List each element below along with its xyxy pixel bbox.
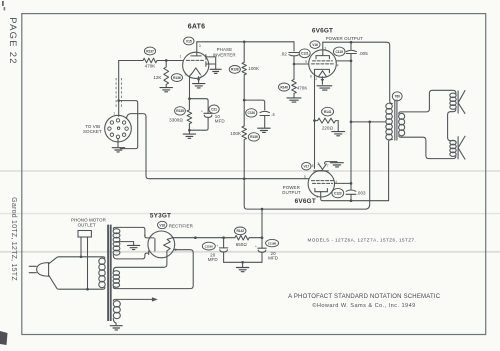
node junction V15 cathode / R135 C21 [188,97,191,100]
resistor R139 zigzag [242,100,247,139]
pin 3 of V16 [324,46,326,50]
value 470K of R140 [297,85,308,90]
value 20 MFD of C119A [208,253,219,262]
wire V16 screen to bus [336,60,351,62]
ground for V15 diodes [210,69,221,73]
svg-text:+: + [217,244,219,248]
C119B lower lead [261,252,263,262]
power transformer heater winding [113,301,120,319]
value .02 of C121 [280,51,287,56]
label POWER OUTPUT upper [326,36,364,41]
resistor R142 zigzag [235,235,249,240]
svg-text:2: 2 [315,77,317,81]
resistor R135 ref oval [175,107,186,115]
value 12K [153,75,161,80]
resistor 12K zigzag [164,61,169,88]
pin 2 of V15 [185,73,187,77]
tube V18 ref oval [158,221,167,228]
capacitor C115 and C123 bus vertical [350,42,352,201]
resistor R138 zigzag [242,42,246,100]
capacitor C121 top lead [293,42,295,51]
svg-text:7: 7 [200,75,202,79]
wire AC bottom [49,275,105,289]
value 100K of R138 [248,66,259,71]
svg-text:.4: .4 [271,112,275,117]
ground below V15 [193,84,205,88]
resistor R136 ref oval [171,74,182,82]
label 5Y3GT [150,212,171,219]
C120 lower lead [264,116,266,128]
label POWER OUTPUT lower [282,185,301,195]
svg-text:470K: 470K [145,64,156,69]
node junction grid line / R139 [243,177,246,180]
wire filament winding top to V18 [113,257,167,271]
value 220 ohm of R141 [322,125,334,130]
tube label 6V6GT upper [312,27,333,34]
shield dashes [116,78,121,108]
pin 7 of V17 [327,164,329,168]
wire V16 V17 cathode line [314,69,316,168]
filter bus ground stem [242,262,244,267]
node junction C121/R140/grid [293,63,296,66]
power transformer primary coil [99,258,105,288]
ground below 12K [160,88,172,92]
svg-text:Garod 10TZ, 12TZ, 15TZ: Garod 10TZ, 12TZ, 15TZ [10,197,17,281]
resistor R141 ref oval [322,107,334,116]
tube V17 envelope [308,171,334,197]
wire socket to V17 grid [127,114,310,179]
svg-text:5: 5 [305,60,307,64]
svg-text:R135: R135 [176,109,184,113]
resistor R141 zigzag [315,118,339,131]
tube V18 envelope [148,231,175,258]
V16 screen grid dashes [313,60,333,62]
svg-text:C21: C21 [211,108,217,112]
node junction screen bus upper [350,60,353,63]
resistor R138 ref oval [229,66,240,74]
svg-text:.003: .003 [357,191,366,196]
pin 8 of V16 [310,74,312,78]
svg-text:RECTIFIER: RECTIFIER [169,224,194,229]
V16 heater stem and arrowhead [321,77,325,85]
ground below R141 [332,132,345,136]
label PHONO MOTOR OUTLET [71,218,107,228]
capacitor C120 ref oval [246,109,257,117]
svg-text:220Ω: 220Ω [322,125,334,130]
capacitor C119A ref oval [202,242,215,250]
value .005 of C115 [359,51,368,56]
label PHASE INVERTER [213,47,237,57]
node shield tap [117,99,120,102]
svg-text:R137: R137 [146,49,154,53]
pin 2 of V16 [315,77,317,81]
V17 plate bar [315,189,328,192]
svg-text:R136: R136 [173,76,181,80]
heater winding bottom lead [113,318,116,325]
capacitor C123 ref oval [332,188,344,197]
resistor R135 zigzag [187,99,192,131]
V15 grid dashes [187,59,204,61]
wire V15 grid line [119,60,183,62]
scan streak 2 [0,213,500,215]
pin 2 of V18 [175,248,177,252]
node junction bus / CT line [350,121,353,124]
capacitor C123 plates [346,190,356,194]
svg-text:C123: C123 [334,191,342,195]
pin 5 of V17 [304,175,306,179]
V17 control grid dashes [312,180,334,182]
value 10 MFD of C21 [215,114,226,123]
ground below socket [112,148,124,152]
capacitor C21 branch wire [190,99,209,113]
svg-text:C115: C115 [336,50,344,54]
plus sign C119B [255,244,257,248]
svg-text:R142: R142 [236,229,244,233]
V16 plate lead [322,42,324,55]
node junction C119B top [261,236,264,239]
speaker 2 magnet symbol [458,136,465,160]
V18 filament zigzag [164,238,173,257]
node junction R138/R139/C120 [243,99,246,102]
svg-text:3: 3 [199,44,201,48]
power transformer HV winding [113,229,120,256]
capacitor C115 plates [346,50,356,53]
svg-text:V17: V17 [304,165,310,169]
wire filter ground bus [224,261,262,263]
resistor R139 ref oval [248,133,259,141]
label TO VIB SOCKET [83,124,102,134]
V18 plate bar [154,239,156,251]
capacitor C119A lead [223,238,225,248]
svg-text:V18: V18 [159,223,165,227]
ground below R135 [183,134,195,138]
svg-text:.02: .02 [280,51,287,56]
pin 3 of V15 [199,44,201,48]
wire V16 plate to output transformer [323,42,393,103]
label RECTIFIER [169,224,194,229]
wire AC top [49,257,105,264]
plug prongs [29,266,36,272]
svg-text:MODELS - 12TZ6A, 12TZ7A, 15TZ6: MODELS - 12TZ6A, 12TZ7A, 15TZ6, 15TZ7. [308,237,417,242]
V16 plate bar [316,56,329,59]
ground below power transformer [110,326,122,330]
V15 cathode arrow [190,68,201,99]
svg-text:C119A: C119A [205,244,214,248]
svg-text:100K: 100K [248,66,259,71]
pin 3 of V17 [316,195,318,199]
pin 4 of V17 [335,180,337,184]
scan streak 1 [0,170,500,172]
pin 1 of V15 [180,54,182,58]
V16 cathode bar [315,69,330,72]
wire secondary top to speaker 1 [399,90,456,113]
resistor R137 ref oval [144,47,155,55]
pin 1 of socket [113,112,115,116]
V16 control grid dashes [312,63,334,65]
tube label 6V6GT lower [295,198,316,205]
svg-text:8: 8 [310,74,312,78]
svg-text:R140: R140 [280,85,288,89]
svg-text:6AT6: 6AT6 [188,24,205,31]
svg-text:7: 7 [327,164,329,168]
svg-text:4: 4 [337,64,339,68]
node junction outlet top [80,255,83,258]
svg-text:12K: 12K [153,75,161,80]
page edge mark bottom-left [0,331,8,345]
V17 screen grid dashes [313,182,333,184]
wire heater winding to heaters arrow [113,297,158,301]
svg-text:3300Ω: 3300Ω [169,118,183,123]
svg-text:V15: V15 [186,39,192,43]
plus sign C119A [217,244,219,248]
tube label 6AT6 [188,24,205,31]
svg-text:R139: R139 [250,135,258,139]
wire secondary bottom to speaker 2 [399,136,456,159]
svg-text:6V6GT: 6V6GT [312,27,333,34]
svg-text:©Howard W. Sams & Co., Inc. 19: ©Howard W. Sams & Co., Inc. 1949 [312,302,415,309]
wire V15 plate to C121 [197,41,294,43]
svg-text:1: 1 [113,112,115,116]
wire shield to ground [119,101,138,149]
page number label PAGE 22 [8,17,19,65]
capacitor C119B lead from B plus [261,209,263,248]
svg-text:650Ω: 650Ω [236,242,248,247]
svg-text:PAGE 22: PAGE 22 [8,17,19,65]
wire R139 bottom to B plus line [244,122,370,209]
wire V17 heater to ground [325,162,337,164]
svg-text:MFD: MFD [208,257,219,262]
svg-text:POWER OUTPUT: POWER OUTPUT [326,36,364,41]
svg-text:+: + [255,244,257,248]
tube V17 ref oval [302,162,311,170]
svg-text:3: 3 [324,46,326,50]
power transformer core [108,225,111,321]
svg-text:6V6GT: 6V6GT [295,198,316,205]
V17 heater chevron [319,164,327,170]
pin 4 of V16 [337,64,339,68]
svg-text:C119B: C119B [268,241,276,245]
value 470K of R137 [145,64,156,69]
node junction B plus / C119B [261,208,264,211]
label copyright Howard W. Sams [312,302,415,309]
ground below R140 [287,98,301,102]
pin 5 of V16 [305,60,307,64]
node junction R135 / C21 / ground [188,129,191,132]
output transformer T60 ref oval [392,92,402,101]
node junction C119A top [222,236,225,239]
svg-text:470K: 470K [297,85,308,90]
node junction C123 / plate line [350,199,353,202]
node junction outlet bottom [86,288,89,291]
node junction at 195 [194,236,197,239]
svg-text:SOCKET: SOCKET [83,129,102,134]
capacitor C21 plates [204,113,212,117]
tube V15 ref oval [184,37,194,45]
wire HV winding top to plate pin 4 [113,227,154,238]
svg-text:T60: T60 [395,95,401,99]
capacitor C120 branch wire [244,100,265,110]
wire V17 screen to bus [334,182,351,184]
svg-text:+: + [201,110,203,114]
pin 8 of V17 [312,164,314,168]
svg-text:5Y3GT: 5Y3GT [150,212,171,219]
output transformer primary coil [386,103,393,140]
outlet prong leads [81,237,88,289]
C119A lower lead [223,252,225,262]
wire speaker 1 to speaker 2 [448,109,456,142]
diode plate leads and tie [206,57,216,69]
vibrator socket [105,115,132,142]
plus sign C21 [201,110,203,114]
C21 lower lead [189,117,208,130]
wire HV bottom to plate pin 6 [113,253,148,259]
pin 7 of V15 [200,75,202,79]
HV center tap lead [116,242,133,245]
svg-text:PHASE: PHASE [217,47,233,52]
svg-text:.005: .005 [359,51,368,56]
wire CT line to primary [351,121,386,123]
V17 cathode bar [314,170,329,172]
ground at HV center tap [128,245,140,249]
V15 plate bar [191,55,201,57]
node junction CT / B plus vertical [368,121,371,124]
capacitor C119A plates [219,248,227,252]
node junction grid/12K [165,59,168,62]
node junction ground bus [241,261,244,264]
page edge mark top-left [2,1,5,10]
V15 heater stem and arrowhead [197,77,201,83]
label MODELS list [308,237,417,242]
svg-text:2: 2 [317,162,319,166]
model label Garod 10TZ, 12TZ, 15TZ [10,197,17,281]
value 3300 ohm of R135 [169,118,183,123]
resistor R137 zigzag [143,58,157,63]
node junction plate wire / C115 [350,41,353,44]
svg-text:INVERTER: INVERTER [213,52,237,57]
svg-text:OUTLET: OUTLET [78,222,96,227]
speaker 2 voice coil [450,140,456,156]
V15 plate lead [196,42,198,56]
svg-text:R141: R141 [324,110,332,114]
wire V18 output to filter [172,237,262,239]
svg-text:C121: C121 [301,52,309,56]
resistor R140 ref oval [279,83,290,91]
pin 4 of V18 [144,234,146,238]
node junction cathode / R141 [313,119,316,122]
speaker 1 voice coil [450,93,456,109]
output transformer core [395,100,397,141]
tube V15 envelope [183,52,209,78]
wire to V16 grid [294,63,309,65]
svg-text:100K: 100K [230,131,241,136]
AC line plug [37,263,49,277]
speaker 1 magnet symbol [458,90,465,114]
svg-text:A PHOTOFACT STANDARD NOTATI: A PHOTOFACT STANDARD NOTATION SCHEMATIC [288,294,441,300]
wire V17 plate to output transformer [321,140,393,201]
svg-text:3: 3 [316,195,318,199]
power transformer filament winding [113,271,120,288]
svg-text:1: 1 [180,54,182,58]
C121 lower lead [293,57,295,64]
label A PHOTOFACT STANDARD NOTATION SCHEMATIC [288,294,441,300]
svg-text:V16: V16 [312,43,318,47]
ground below C120 [258,128,270,132]
value 20 MFD of C119B [268,251,279,260]
svg-text:C120: C120 [248,111,256,115]
wire filament winding bottom to V18 pin 2 [113,250,193,289]
value 650 ohm of R142 [236,242,248,247]
node junction bus / V17 screen [350,182,353,185]
tube V16 envelope [309,50,337,78]
svg-text:OUTPUT: OUTPUT [282,190,301,195]
value .4 of C120 [271,112,275,117]
svg-text:8: 8 [312,164,314,168]
resistor R142 ref oval [234,227,246,235]
ground below filter bus [236,268,248,272]
ground below V16 heater [317,86,332,90]
svg-text:R138: R138 [231,68,239,72]
V15 diode plates [205,55,207,67]
resistor R140 zigzag [292,64,297,97]
capacitor C119B plates [258,248,266,252]
svg-text:4: 4 [144,234,146,238]
R135 ground stem [188,130,190,133]
capacitor C119B ref oval [266,239,279,246]
capacitor C115 ref oval [333,47,345,56]
node junction plate wire / R138 [243,40,246,43]
socket ground lead [117,139,119,148]
pin 2 of V17 [317,162,319,166]
value 100K of R139 [230,131,241,136]
V18 second plate bar [148,251,150,255]
svg-text:MFD: MFD [268,255,279,260]
shielded lead solid conductor [118,61,120,117]
tube V16 ref oval [310,41,320,49]
phono motor outlet box [78,231,91,238]
capacitor C121 plates [289,53,299,56]
svg-text:MFD: MFD [215,119,226,124]
ground at V17 heater [331,163,344,167]
V16 heater chevron [319,71,327,77]
value .003 of C123 [357,191,366,196]
svg-text:2: 2 [185,73,187,77]
svg-text:5: 5 [304,175,306,179]
capacitor C21 ref oval [209,105,219,113]
capacitor C121 ref oval [299,49,310,58]
output transformer secondary coil [399,113,405,136]
capacitor C120 plates [260,111,269,115]
scan streak 3 [0,251,500,253]
